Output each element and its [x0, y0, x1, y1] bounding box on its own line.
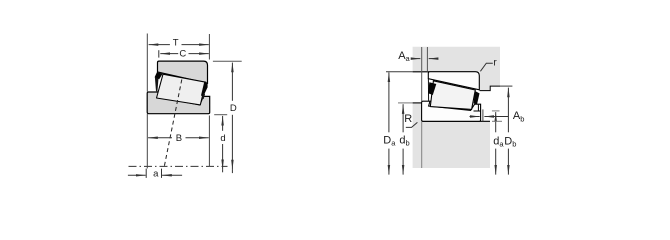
tapered roller — [157, 74, 206, 105]
svg-text:da: da — [493, 135, 504, 148]
cage section, small end (left) — [155, 72, 163, 79]
dimension D — [231, 63, 233, 101]
svg-text:Db: Db — [504, 135, 516, 148]
cage small end strip + blob — [427, 79, 429, 101]
extension line for d (right of cone) — [214, 114, 227, 116]
dimension a — [128, 174, 146, 176]
housing bore line — [413, 71, 429, 73]
dimension T — [149, 44, 170, 46]
dimension D_b — [507, 88, 509, 133]
A_a extension bar 2 (cup front face plane) — [426, 47, 428, 72]
svg-text:Ab: Ab — [513, 110, 525, 123]
d_a extension tick — [492, 110, 500, 112]
svg-text:R: R — [404, 113, 412, 125]
d_b extension tick — [398, 102, 413, 104]
extension line for D (top right) — [213, 60, 242, 62]
dimension d_b — [402, 104, 404, 132]
A_b extension tick (cone front face) — [482, 109, 484, 121]
cage big end wedge — [474, 91, 480, 105]
extension line right top (cup back face) — [208, 34, 210, 60]
housing section (grey) — [413, 47, 500, 91]
dimension A_b — [470, 116, 480, 118]
cup (outer ring) — [428, 72, 479, 90]
shaft section (grey) — [413, 103, 490, 168]
shaft shoulder top line — [413, 102, 422, 104]
roller axis dashed line — [164, 80, 182, 167]
cup (outer ring) grey section — [158, 61, 208, 83]
leader r (housing fillet) — [480, 63, 492, 71]
bearing centerline (dash-dot) — [129, 165, 228, 167]
svg-text:db: db — [399, 134, 409, 147]
shaft seat surface line — [422, 120, 490, 122]
svg-text:T: T — [173, 38, 179, 49]
extension line right bottom (cone front face) — [208, 116, 210, 167]
cone (inner ring) — [422, 101, 481, 121]
A_a extension bar 1 (cone back face plane) — [421, 47, 423, 101]
bearing section (white) in mounting — [422, 72, 481, 122]
dimension d — [222, 116, 224, 131]
svg-text:Da: Da — [383, 134, 396, 147]
dimension B — [148, 137, 172, 139]
svg-text:C: C — [179, 48, 186, 59]
dimension A_a — [414, 58, 421, 60]
svg-text:d: d — [220, 133, 225, 144]
tapered roller — [430, 81, 475, 110]
extension line left (back face) — [146, 34, 148, 92]
cone front rib lines — [474, 105, 481, 111]
svg-text:Aa: Aa — [398, 50, 410, 63]
svg-text:D: D — [230, 103, 237, 114]
dimension C — [158, 50, 160, 57]
svg-text:B: B — [176, 133, 182, 144]
dimension D_a — [388, 72, 390, 132]
D_a extension line — [386, 71, 413, 73]
shaft surface extension tick right — [492, 120, 502, 122]
dimension d_a — [495, 112, 497, 132]
cage section, big end (right) — [201, 82, 208, 97]
housing shoulder relief groove — [480, 86, 500, 91]
dimension a ticks — [145, 169, 147, 178]
extension line left, below bearing to centerline — [146, 114, 148, 168]
svg-text:a: a — [153, 168, 159, 179]
cone (inner ring) grey section — [147, 92, 210, 114]
